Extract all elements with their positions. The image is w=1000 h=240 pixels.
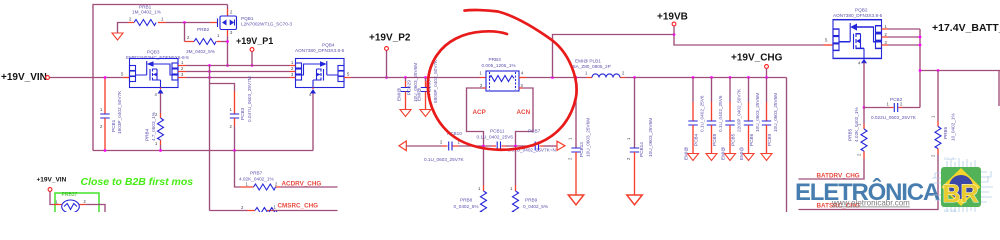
svg-text:ACN: ACN — [517, 109, 531, 116]
svg-text:2: 2 — [100, 124, 103, 129]
svg-text:4.02K_0402_1%: 4.02K_0402_1% — [239, 177, 274, 182]
wire right edge stub — [998, 71, 1000, 107]
resistor PRB6 — [937, 71, 939, 122]
svg-text:0.047U_0603_25V7M: 0.047U_0603_25V7M — [247, 76, 252, 122]
fuse PRB37 — [55, 193, 99, 214]
svg-text:0.1U_0603_25V7K: 0.1U_0603_25V7K — [424, 157, 464, 162]
svg-text:0.022U_0603_25V7K: 0.022U_0603_25V7K — [871, 115, 917, 120]
svg-text:2: 2 — [241, 205, 244, 210]
svg-text:2: 2 — [230, 124, 233, 129]
svg-text:1: 1 — [887, 102, 890, 107]
capacitor PCB13 — [575, 78, 577, 149]
resistor PRB2 — [184, 23, 186, 42]
wire top drain line and long vertical x93 — [93, 5, 228, 151]
svg-text:4: 4 — [521, 71, 524, 76]
wire +19VB riser — [553, 35, 824, 78]
wire PRB3 out to +19VB riser — [519, 77, 526, 79]
svg-text:1: 1 — [155, 141, 158, 146]
svg-text:10U_0603_25V6M: 10U_0603_25V6M — [586, 118, 591, 157]
svg-text:3: 3 — [181, 72, 184, 77]
svg-text:2: 2 — [187, 35, 190, 40]
svg-text:3M_0402_5%: 3M_0402_5% — [186, 49, 215, 54]
svg-text:2200P_0402_50V7K: 2200P_0402_50V7K — [737, 88, 742, 132]
svg-text:5: 5 — [825, 38, 828, 43]
svg-text:PRB8: PRB8 — [460, 198, 473, 203]
pin 4 of PQB2 — [861, 59, 867, 64]
resistor PRB4 — [160, 94, 162, 114]
resistor PRB7 — [235, 151, 241, 188]
svg-text:1: 1 — [931, 115, 936, 118]
svg-text:1: 1 — [246, 182, 249, 187]
svg-text:PCB3: PCB3 — [240, 107, 245, 120]
svg-text:2: 2 — [291, 66, 294, 71]
svg-text:2: 2 — [568, 157, 573, 160]
svg-text:0_0402_5%: 0_0402_5% — [454, 204, 479, 209]
svg-text:4: 4 — [858, 61, 861, 66]
wire gate node — [166, 22, 210, 24]
resistor CMSRC series (unlabeled) — [210, 210, 248, 212]
svg-text:5: 5 — [121, 72, 124, 77]
svg-text:+19V_P1: +19V_P1 — [236, 36, 273, 46]
svg-text:PCB5: PCB5 — [731, 133, 736, 146]
svg-text:1: 1 — [478, 186, 481, 191]
svg-text:2: 2 — [275, 182, 278, 187]
svg-text:PCB1: PCB1 — [111, 119, 116, 132]
svg-text:2: 2 — [900, 102, 903, 107]
capacitor PCB4 — [692, 76, 695, 79]
svg-text:0.005_1206_1%: 0.005_1206_1% — [482, 63, 516, 68]
svg-text:PRB5: PRB5 — [848, 128, 853, 141]
svg-text:+17.4V_BATT_: +17.4V_BATT_ — [932, 22, 1000, 34]
svg-text:b37 a01: b37 a01 — [944, 209, 957, 212]
svg-text:10U_0603_25V6M: 10U_0603_25V6M — [648, 118, 653, 157]
svg-text:PRB7: PRB7 — [250, 171, 263, 176]
wire bus corner down to battery rail — [786, 78, 788, 213]
svg-text:0_0402_5%: 0_0402_5% — [523, 204, 548, 209]
capacitor bank PCB4 PCB8 PCB5 PCB6 PCB9 — [684, 76, 779, 160]
svg-text:PQB2: PQB2 — [855, 8, 868, 13]
svg-text:1: 1 — [291, 60, 294, 65]
inductor PLB1 — [575, 76, 578, 79]
svg-text:2: 2 — [230, 10, 233, 15]
svg-text:PQB3: PQB3 — [147, 50, 160, 55]
svg-text:2: 2 — [129, 17, 132, 22]
svg-text:1: 1 — [56, 200, 59, 205]
svg-text:5: 5 — [347, 72, 350, 77]
svg-text:1M_0402_1%: 1M_0402_1% — [132, 10, 161, 15]
svg-text:3: 3 — [230, 30, 233, 35]
svg-text:PCB7: PCB7 — [528, 129, 541, 134]
svg-text:0.1U_0402_25V6: 0.1U_0402_25V6 — [718, 95, 723, 132]
resistor PRB5 — [863, 108, 865, 125]
svg-text:2: 2 — [622, 71, 625, 76]
svg-text:1: 1 — [217, 33, 220, 38]
svg-text:1: 1 — [585, 71, 588, 76]
svg-text:+19V_VIN: +19V_VIN — [1, 72, 47, 83]
svg-text:3: 3 — [291, 72, 294, 77]
svg-text:EMI@: EMI@ — [684, 147, 689, 160]
svg-text:+19V_VIN: +19V_VIN — [37, 177, 67, 184]
svg-text:PRB37: PRB37 — [62, 192, 78, 198]
capacitor PCB9 — [765, 76, 768, 79]
capacitor PCB5 — [729, 76, 732, 79]
svg-text:PRB2: PRB2 — [197, 27, 210, 32]
svg-text:5A_Z80_0805_2P: 5A_Z80_0805_2P — [573, 64, 611, 69]
svg-text:EMI@: EMI@ — [739, 147, 744, 160]
svg-text:2: 2 — [480, 83, 483, 88]
transistor PQB1 — [210, 9, 228, 36]
resistor PRB9 — [515, 146, 517, 185]
capacitor PCB10 — [442, 145, 458, 147]
svg-text:PCB6: PCB6 — [749, 133, 754, 146]
svg-text:BR: BR — [943, 180, 979, 208]
svg-text:PRB4: PRB4 — [145, 128, 150, 141]
svg-text:2: 2 — [181, 66, 184, 71]
svg-text:2: 2 — [626, 157, 631, 160]
capacitor PCB30 — [424, 76, 427, 79]
svg-text:0.1U_0402_25V6: 0.1U_0402_25V6 — [700, 95, 705, 132]
svg-text:PCB8: PCB8 — [712, 133, 717, 146]
wire +19V_VIN bus to PQB3 pin5 — [50, 77, 124, 79]
svg-text:1: 1 — [181, 60, 184, 65]
svg-text:1: 1 — [161, 17, 164, 22]
svg-text:2: 2 — [84, 199, 87, 204]
svg-text:3: 3 — [885, 40, 888, 45]
svg-text:EMI@: EMI@ — [721, 147, 726, 160]
svg-text:1: 1 — [100, 107, 103, 112]
wire fuse output — [86, 205, 105, 213]
svg-text:PCB11: PCB11 — [490, 129, 505, 134]
svg-text:PCB4: PCB4 — [694, 133, 699, 146]
svg-text:ACP: ACP — [473, 109, 486, 116]
svg-text:10_0402_1%: 10_0402_1% — [951, 113, 956, 141]
svg-text:www.eletronicabr.com: www.eletronicabr.com — [831, 199, 910, 208]
svg-text:2: 2 — [857, 153, 862, 156]
capacitor PCB6 — [747, 76, 750, 79]
svg-text:2: 2 — [440, 140, 443, 145]
capacitor PCB3 — [234, 91, 236, 114]
wire gate-drive rail — [93, 94, 313, 151]
wire low-pass sense rail — [399, 141, 406, 151]
wire 3-line source bundle — [178, 66, 296, 78]
logo BR chip — [932, 157, 993, 215]
svg-text:10U_0603_25V6M: 10U_0603_25V6M — [755, 93, 760, 132]
capacitor PCB2 — [864, 107, 890, 109]
svg-text:1: 1 — [230, 107, 233, 112]
svg-text:PRB9: PRB9 — [525, 198, 538, 203]
wires PQB2 drain pins to batt rail — [882, 29, 889, 45]
svg-text:10U_0603_25V6M: 10U_0603_25V6M — [773, 93, 778, 132]
svg-text:1: 1 — [510, 186, 513, 191]
svg-text:PCB29: PCB29 — [407, 80, 412, 95]
annotation red circle — [428, 10, 577, 150]
resistor PRB8 — [483, 146, 485, 185]
wire ACN drop — [519, 87, 522, 89]
capacitor PCB8 — [710, 76, 713, 79]
ground under PRB1 — [112, 33, 123, 40]
svg-text:2: 2 — [155, 112, 158, 117]
svg-text:EMI@: EMI@ — [397, 88, 402, 101]
svg-text:0.1U_0402_25V6: 0.1U_0402_25V6 — [477, 135, 514, 140]
capacitor PCB7 — [530, 145, 544, 147]
pin 4 of PQB4 — [310, 89, 316, 94]
svg-text:1: 1 — [274, 205, 277, 210]
svg-text:1: 1 — [480, 71, 483, 76]
capacitor PCB1 — [104, 78, 106, 115]
svg-text:EMI@ PLB1: EMI@ PLB1 — [575, 59, 601, 64]
svg-text:PCB13: PCB13 — [579, 142, 584, 157]
svg-text:1: 1 — [626, 137, 631, 140]
svg-text:6800P_0402_50V7K: 6800P_0402_50V7K — [433, 59, 438, 103]
svg-text:PRB3: PRB3 — [489, 57, 502, 62]
svg-text:1: 1 — [568, 137, 573, 140]
watermark ELETRONICA BR — [795, 178, 940, 208]
capacitor PCB29 — [404, 76, 407, 79]
wire bundle to CMSRC drop — [209, 66, 211, 211]
svg-text:Close to B2B first mos: Close to B2B first mos — [81, 176, 194, 188]
svg-text:AON7380_DFN3X3.8-5: AON7380_DFN3X3.8-5 — [833, 13, 883, 18]
svg-text:PQB1: PQB1 — [241, 16, 254, 21]
capacitor PCB14 — [633, 76, 636, 79]
svg-text:PRB6: PRB6 — [943, 126, 948, 139]
svg-text:PCB14: PCB14 — [639, 142, 644, 157]
svg-text:+19V_CHG: +19V_CHG — [731, 53, 783, 64]
wire ACP drop — [483, 87, 486, 89]
wire main bus PQB4 to PRB3 — [351, 77, 480, 79]
pin 4 of PQB3 — [158, 89, 164, 94]
svg-text:1603P_0402_50V7K: 1603P_0402_50V7K — [117, 90, 122, 134]
svg-text:L2N7002WT1G_SC70-3: L2N7002WT1G_SC70-3 — [241, 22, 292, 27]
wire batt rail — [920, 70, 1000, 72]
svg-text:CMSRC_CHG: CMSRC_CHG — [278, 203, 319, 210]
svg-text:4: 4 — [155, 92, 158, 97]
svg-text:PQB4: PQB4 — [322, 43, 335, 48]
svg-text:AON7380_DFN3X3.8-5: AON7380_DFN3X3.8-5 — [295, 48, 345, 53]
svg-text:03a dll:r: 03a dll:r — [944, 157, 957, 161]
capacitor PCB11 — [492, 145, 506, 147]
svg-text:1: 1 — [885, 24, 888, 29]
resistor PRB1 — [118, 23, 129, 33]
svg-text:EMI@: EMI@ — [417, 88, 422, 101]
svg-text:+19V_P2: +19V_P2 — [369, 33, 411, 44]
svg-text:+19VB: +19VB — [657, 12, 688, 23]
svg-text:2: 2 — [885, 32, 888, 37]
svg-text:ACDRV_CHG: ACDRV_CHG — [282, 181, 322, 188]
svg-text:PCB9: PCB9 — [767, 133, 772, 146]
svg-text:2: 2 — [931, 154, 936, 157]
svg-text:3: 3 — [521, 83, 524, 88]
